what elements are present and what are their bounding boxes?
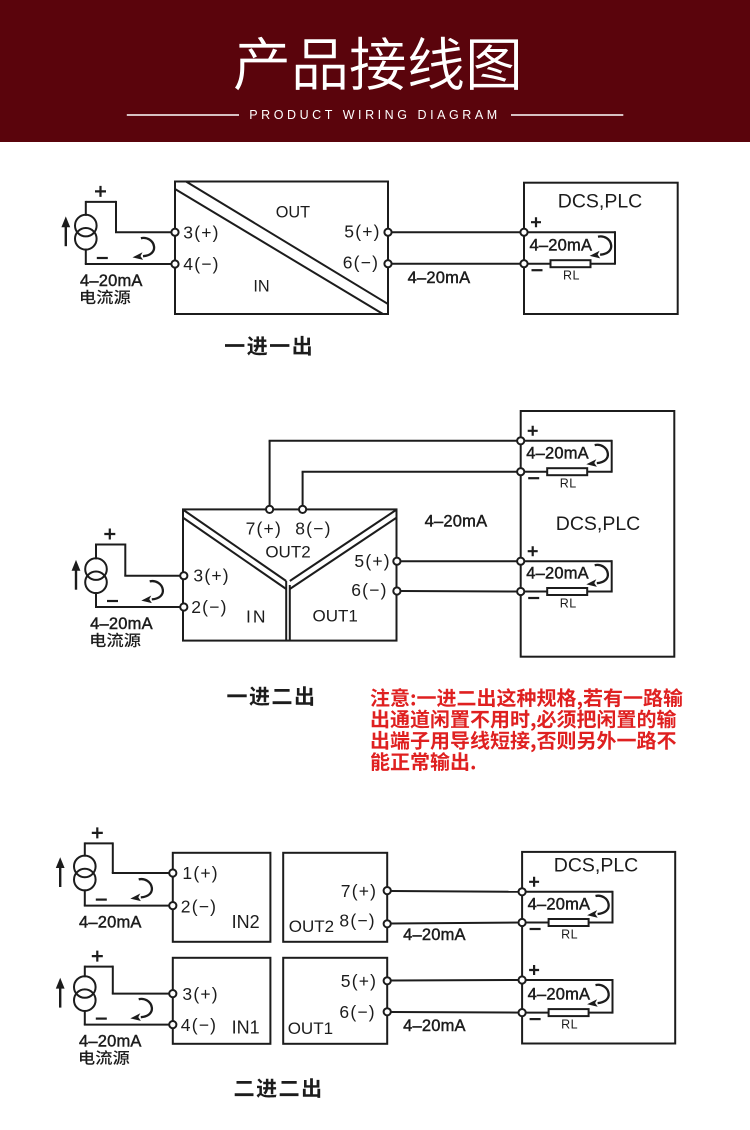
D3 DCS loop A: load resistor RL [549, 919, 589, 926]
D2 DCS,PLC box [521, 411, 675, 657]
D3 source CS3: loop direction curved arrow [130, 879, 152, 901]
D3 DCS loop B: load resistor RL [549, 1009, 589, 1016]
D1 source CS1: loop direction curved arrow [133, 238, 155, 260]
D2 note line 1 [371, 688, 683, 710]
D2 wire 6(-) to DCS loopB - [401, 590, 521, 593]
D1 source CS1: wire from + top to step corner [86, 201, 116, 203]
D2 wire 8(-) up [302, 472, 304, 506]
svg-text:4–20mA: 4–20mA [79, 1032, 142, 1050]
svg-text:4–20mA: 4–20mA [90, 615, 153, 633]
D3 source CS4: current direction up-arrow [59, 988, 61, 1008]
D3 source CS4: current source symbol (two circles) [74, 976, 96, 1011]
svg-text:7(+): 7(+) [246, 519, 282, 539]
svg-text:4–20mA: 4–20mA [403, 926, 466, 944]
D3 DCS loop B: loop right wire [612, 979, 614, 1014]
D2 source CS2: label 电流源 [91, 633, 140, 648]
D3 source CS3: wire bottom of source [84, 889, 86, 905]
svg-text:RL: RL [560, 477, 577, 491]
D3 wire 8(-) to DCS loopA - [391, 923, 522, 924]
D1 DCS loop: loop bottom wire [527, 263, 615, 265]
D1 DCS,PLC box [524, 183, 678, 314]
D1 DCS loop: minus polarity mark [532, 269, 543, 271]
D1 source CS1: current direction up-arrow [65, 226, 67, 246]
D1 isolator OUT/IN separator diagonal (upper) [186, 182, 388, 305]
D1 source CS1: wire bottom of source [85, 249, 87, 264]
D2 terminal 3(+) [180, 572, 187, 579]
D3 terminal 6(-) [384, 1008, 391, 1015]
D3 DCS loop B: plus terminal [519, 976, 526, 983]
D2 source CS2: wire bottom of source [95, 592, 97, 607]
svg-text:RL: RL [563, 269, 580, 283]
svg-text:3(+): 3(+) [193, 566, 229, 586]
D2 source CS2: minus polarity mark [107, 600, 118, 602]
D3 caption 二进二出 [235, 1078, 321, 1098]
D1 DCS loop: loop top wire [527, 231, 615, 233]
D1 wire 6(-) to DCS - [392, 263, 524, 265]
svg-text:DCS,PLC: DCS,PLC [556, 513, 641, 535]
D3 terminal 4(-) [169, 1021, 176, 1028]
svg-text:3(+): 3(+) [182, 984, 218, 1004]
D1 DCS loop: loop right wire [614, 231, 616, 265]
D1 source CS1: wire top of source [85, 201, 87, 216]
D2 separator left diagonal (upper) [184, 510, 287, 581]
D2 wire 5(+) to DCS loopB + [401, 560, 521, 562]
D1 terminal 4(-) [171, 260, 178, 267]
svg-text:4–20mA: 4–20mA [530, 237, 593, 255]
D3 source CS4: wire top of source [84, 966, 86, 978]
svg-text:5(+): 5(+) [344, 221, 380, 241]
D2 separator right diagonal (upper) [290, 510, 396, 581]
D2 note line 4 [371, 752, 475, 771]
D1 source CS1: label 电流源 [81, 290, 130, 305]
svg-text:4–20mA: 4–20mA [80, 272, 143, 290]
D2 DCS loop A: loop right wire [611, 440, 613, 473]
D3 source CS3: current source symbol (two circles) [74, 856, 96, 891]
D3 DCS loop A: minus polarity mark [530, 928, 541, 930]
header subtitle rule right [511, 114, 623, 116]
svg-text:4–20mA: 4–20mA [528, 986, 591, 1004]
svg-text:4(−): 4(−) [181, 1015, 217, 1035]
D3 terminal 5(+) [384, 977, 391, 984]
svg-text:4–20mA: 4–20mA [526, 445, 589, 463]
D1 source CS1: wire step down [115, 201, 117, 232]
D2 DCS loop A: current direction curved arrow [586, 445, 608, 467]
D2 wire 7(+) to DCS loopA + [269, 440, 521, 442]
D3 DCS loop A: plus polarity mark [529, 877, 539, 887]
D2 DCS loop A: loop top wire [524, 440, 612, 442]
D2 wire 8(-) to DCS loopA - [302, 471, 521, 473]
D3 DCS loop A: loop bottom wire [525, 922, 612, 924]
D2 isolator U2 box [183, 509, 397, 640]
svg-text:4–20mA: 4–20mA [528, 896, 591, 914]
D3 source CS3: wire step down [112, 842, 114, 873]
D3 terminal 8(-) [384, 920, 391, 927]
D2 DCS loop A: minus polarity mark [528, 477, 539, 479]
D2 source CS2: wire from + top to step corner [96, 544, 125, 546]
svg-text:4–20mA: 4–20mA [408, 269, 471, 287]
svg-text:OUT2: OUT2 [265, 542, 310, 561]
D3 source CS4: wire to plus terminal [112, 993, 173, 995]
D3 DCS loop B: minus terminal [519, 1009, 526, 1016]
svg-text:5(+): 5(+) [341, 971, 377, 991]
D3 terminal 1(+) [169, 869, 176, 876]
D3 source CS4: label 电流源 [80, 1050, 129, 1065]
D2 terminal 6(-) [393, 587, 400, 594]
D1 isolator U1 box [175, 182, 388, 315]
D3 source CS3: wire from + top to step corner [85, 842, 113, 844]
D2 caption 一进二出 [227, 686, 313, 706]
svg-text:OUT1: OUT1 [313, 606, 358, 625]
D3 source CS3: plus polarity mark [92, 827, 103, 838]
D3 source CS4: wire step down [112, 966, 114, 994]
D3 terminal 2(-) [169, 902, 176, 909]
D2 DCS loop B: loop right wire [611, 560, 613, 592]
D3 source CS3: wire to plus terminal [112, 872, 173, 874]
D3 source CS4: minus polarity mark [96, 1017, 107, 1019]
D2 terminal 7(+) [266, 506, 273, 513]
svg-text:IN: IN [246, 607, 268, 627]
svg-text:4–20mA: 4–20mA [79, 913, 142, 931]
header subtitle rule left [127, 114, 239, 116]
D3 source CS3: minus polarity mark [96, 898, 107, 900]
D2 DCS loop B: load resistor RL [547, 588, 587, 595]
D1 terminal 6(-) [384, 260, 391, 267]
D2 DCS loop B: plus polarity mark [528, 546, 538, 556]
D3 source CS3: wire to minus terminal [84, 905, 173, 907]
D2 terminal 8(-) [299, 506, 306, 513]
D1 source CS1: wire to plus terminal [115, 231, 175, 233]
svg-text:IN1: IN1 [232, 1017, 260, 1037]
D3 source CS4: loop direction curved arrow [130, 999, 152, 1021]
D3 wire 7(+) to DCS loopA + [391, 890, 522, 893]
D2 source CS2: wire top of source [95, 544, 97, 560]
D2 DCS loop B: loop bottom wire [524, 591, 612, 593]
D3 source CS3: wire top of source [84, 842, 86, 856]
D2 separator vertical (right) [289, 585, 291, 641]
D2 DCS loop A: plus polarity mark [528, 426, 538, 436]
D3 source CS4: wire bottom of source [84, 1010, 86, 1025]
D1 DCS loop: current direction curved arrow [590, 236, 612, 258]
D3 source CS4: wire from + top to step corner [85, 966, 113, 968]
D1 DCS loop: load resistor RL [551, 260, 591, 267]
D2 source CS2: loop direction curved arrow [141, 581, 163, 603]
D2 DCS loop A: loop bottom wire [524, 471, 612, 473]
D1 DCS loop: plus polarity mark [531, 217, 541, 227]
D3 wire 5(+) to DCS loopB + [391, 979, 522, 982]
svg-text:4–20mA: 4–20mA [425, 513, 488, 531]
svg-text:IN2: IN2 [232, 912, 260, 932]
header band [0, 0, 750, 142]
svg-text:1(+): 1(+) [182, 863, 218, 883]
D2 DCS loop A: minus terminal [517, 468, 524, 475]
svg-text:4(−): 4(−) [183, 254, 219, 274]
D3 DCS loop A: current direction curved arrow [587, 896, 609, 918]
D3 DCS loop A: plus terminal [519, 888, 526, 895]
svg-text:5(+): 5(+) [354, 551, 390, 571]
D3 OUT1 box [283, 958, 387, 1044]
D3 source CS3: current direction up-arrow [59, 867, 61, 887]
svg-text:2(−): 2(−) [191, 597, 227, 617]
D2 terminal 2(-) [180, 603, 187, 610]
D2 terminal 5(+) [393, 558, 400, 565]
D3 DCS loop B: minus polarity mark [530, 1018, 541, 1020]
D2 source CS2: wire to minus terminal [95, 606, 184, 608]
svg-text:8(−): 8(−) [339, 910, 375, 930]
D3 terminal 7(+) [384, 887, 391, 894]
D2 source CS2: wire to plus terminal [124, 575, 184, 577]
D2 separator vertical (left) [285, 581, 287, 641]
header title 产品接线图 [235, 37, 518, 91]
D2 source CS2: current source symbol (two circles) [85, 558, 107, 593]
D2 source CS2: wire step down [124, 544, 126, 576]
D2 DCS loop B: plus terminal [517, 558, 524, 565]
D1 source CS1: minus polarity mark [97, 257, 108, 259]
D3 terminal 3(+) [169, 990, 176, 997]
svg-text:RL: RL [561, 1017, 578, 1031]
D3 source CS4: wire to minus terminal [84, 1024, 173, 1026]
D3 DCS loop B: loop bottom wire [525, 1012, 612, 1014]
D2 note line 3 [372, 731, 676, 752]
svg-text:OUT1: OUT1 [288, 1019, 333, 1038]
D2 DCS loop B: minus terminal [517, 588, 524, 595]
D3 OUT2 box [283, 853, 387, 942]
D2 separator left diagonal (lower) [184, 518, 287, 589]
svg-text:4–20mA: 4–20mA [526, 565, 589, 583]
D1 source CS1: plus polarity mark [95, 186, 106, 197]
svg-text:4–20mA: 4–20mA [403, 1017, 466, 1035]
D2 source CS2: plus polarity mark [104, 529, 115, 540]
D2 DCS loop B: loop top wire [524, 560, 612, 562]
D3 DCS loop A: minus terminal [519, 919, 526, 926]
D1 wire 5(+) to DCS + [392, 231, 524, 233]
D1 DCS loop: minus terminal [520, 260, 527, 267]
svg-text:2(−): 2(−) [181, 897, 217, 917]
D3 source CS4: plus polarity mark [92, 951, 103, 962]
svg-text:6(−): 6(−) [343, 252, 379, 272]
D3 DCS loop A: loop right wire [612, 891, 614, 924]
D1 terminal 5(+) [384, 229, 391, 236]
D2 DCS loop B: minus polarity mark [528, 597, 539, 599]
D2 note line 2 [372, 709, 677, 731]
svg-text:RL: RL [560, 596, 577, 610]
D2 source CS2: current direction up-arrow [75, 570, 77, 590]
svg-text:7(+): 7(+) [341, 881, 377, 901]
svg-text:DCS,PLC: DCS,PLC [558, 190, 643, 212]
svg-text:PRODUCT WIRING DIAGRAM: PRODUCT WIRING DIAGRAM [249, 108, 500, 122]
D2 DCS loop B: current direction curved arrow [586, 565, 608, 587]
D2 DCS loop A: plus terminal [517, 437, 524, 444]
D3 DCS loop A: loop top wire [525, 891, 612, 893]
svg-text:DCS,PLC: DCS,PLC [554, 855, 639, 877]
D1 caption 一进一出 [225, 336, 311, 356]
D2 separator right diagonal (lower) [290, 518, 396, 589]
svg-text:6(−): 6(−) [351, 580, 387, 600]
D3 wire 6(-) to DCS loopB - [391, 1011, 522, 1014]
svg-text:8(−): 8(−) [295, 519, 331, 539]
svg-text:OUT: OUT [276, 203, 310, 221]
svg-text:6(−): 6(−) [339, 1002, 375, 1022]
D3 IN2 box [173, 853, 271, 942]
svg-text:IN: IN [253, 277, 269, 295]
D2 wire 7(+) up [269, 441, 271, 506]
D3 DCS,PLC box [522, 852, 675, 1044]
D3 IN1 box [173, 958, 271, 1044]
svg-text:OUT2: OUT2 [289, 917, 334, 936]
D1 DCS loop: plus terminal [520, 229, 527, 236]
D1 source CS1: wire to minus terminal [85, 263, 175, 265]
D2 DCS loop A: load resistor RL [547, 468, 587, 475]
D3 DCS loop B: current direction curved arrow [587, 985, 609, 1007]
D1 source CS1: current source symbol (two circles) [75, 215, 97, 250]
D3 DCS loop B: loop top wire [525, 979, 612, 981]
D1 isolator OUT/IN separator diagonal (lower) [175, 189, 383, 314]
svg-text:3(+): 3(+) [183, 222, 219, 242]
svg-text:RL: RL [561, 927, 578, 941]
D3 DCS loop B: plus polarity mark [529, 965, 539, 975]
D1 terminal 3(+) [171, 229, 178, 236]
